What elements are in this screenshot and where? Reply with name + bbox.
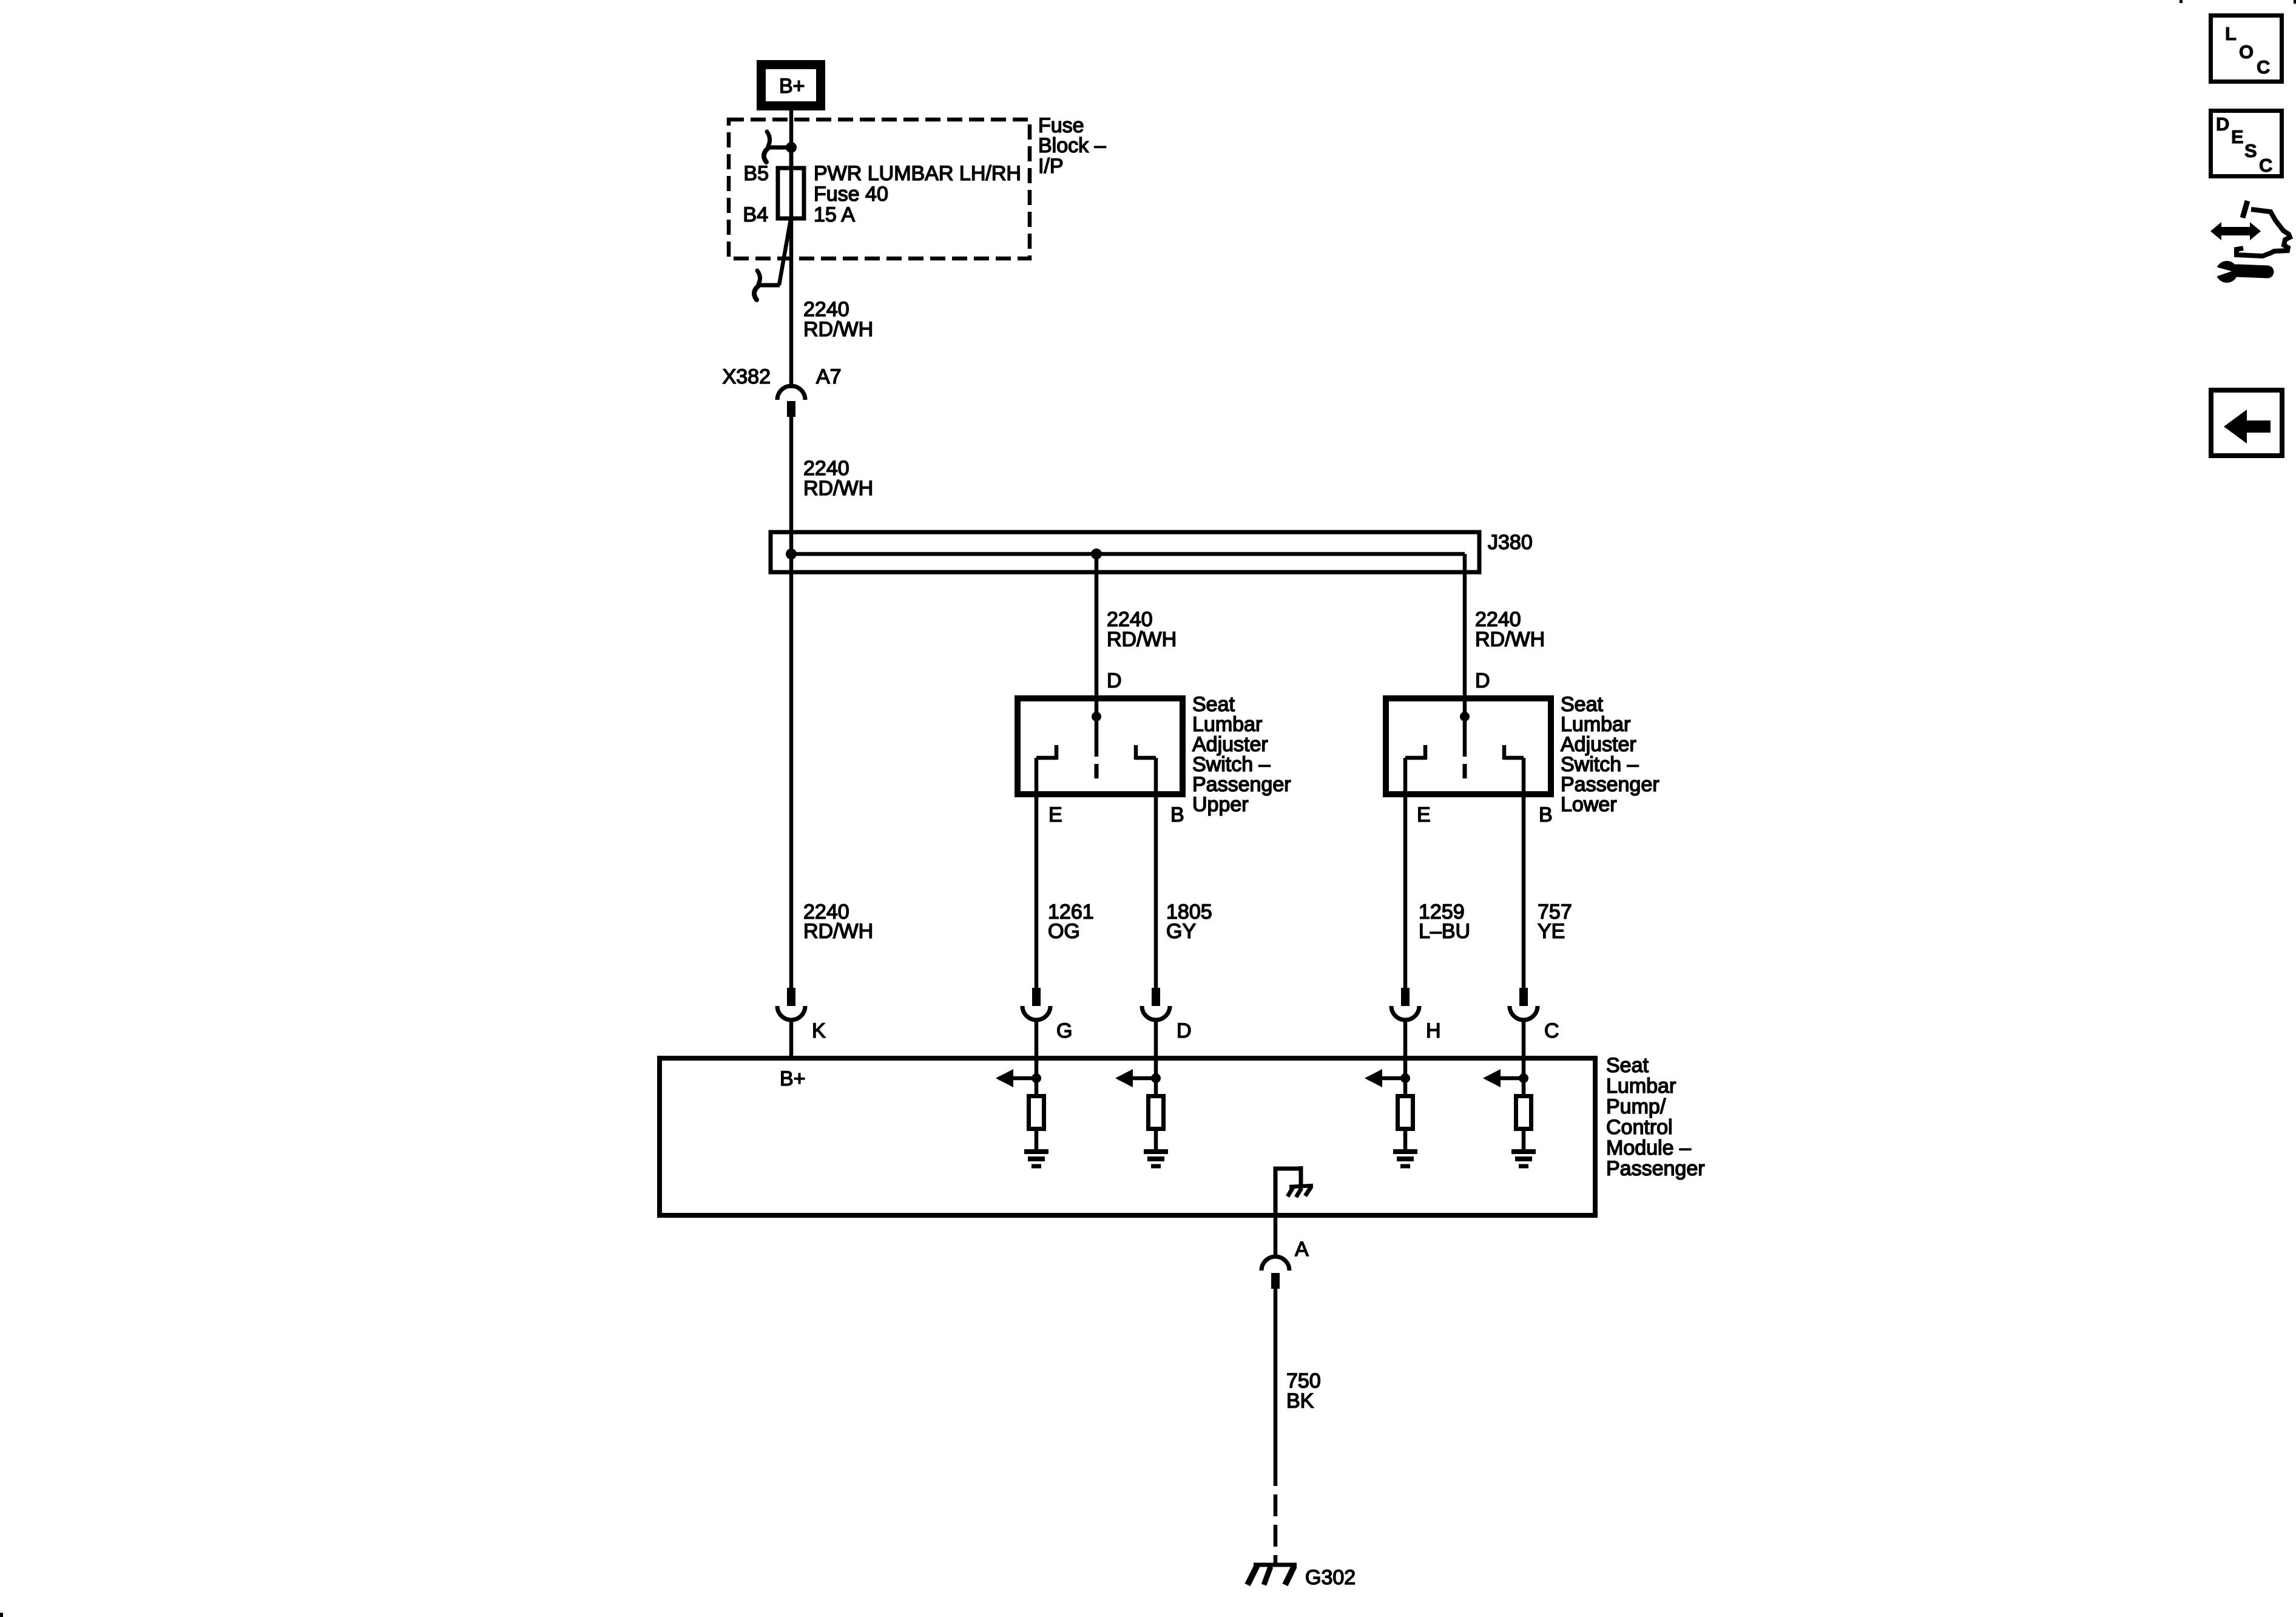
svg-text:I/P: I/P (1038, 155, 1064, 178)
wire S2-E to module pin H (1403, 758, 1408, 989)
svg-text:Pump/: Pump/ (1606, 1095, 1666, 1118)
fuse block I/P dashed box (729, 120, 1030, 258)
in-line connector X382 pin A7 (777, 386, 805, 417)
svg-text:A7: A7 (816, 365, 842, 388)
svg-text:PWR LUMBAR LH/RH: PWR LUMBAR LH/RH (814, 162, 1021, 185)
svg-text:OG: OG (1048, 920, 1080, 943)
svg-text:S: S (2244, 140, 2257, 161)
splice junction dot middle (1091, 549, 1102, 559)
svg-text:B: B (1170, 803, 1184, 826)
svg-text:O: O (2239, 41, 2254, 62)
module Seat Lumbar Pump/Control Module - Passenger (660, 1058, 1595, 1215)
wire S1-B to module pin D (1154, 758, 1158, 989)
switch S1 Seat Lumbar Adjuster Switch - Passenger Upper (1018, 698, 1183, 794)
splice pack J380 (771, 532, 1479, 572)
svg-text:G302: G302 (1305, 1566, 1356, 1589)
splice junction dot left (786, 549, 797, 559)
module channel H: arrow, resistor, ground (1365, 1069, 1417, 1166)
page artifact top right speck (2294, 0, 2296, 4)
module channel D: arrow, resistor, ground (1115, 1069, 1168, 1166)
wire J380 down to module pin K (789, 554, 794, 989)
svg-text:Lumbar: Lumbar (1606, 1075, 1676, 1098)
page artifact bottom left speck (0, 1613, 3, 1617)
LOC nav box (2211, 16, 2282, 82)
svg-text:D: D (2216, 113, 2229, 135)
fuse value label (814, 162, 1021, 226)
B5 fuse clip (764, 132, 791, 162)
switch S2 label (1561, 693, 1660, 816)
wire label 1805 GY (1166, 900, 1212, 943)
connector pin A (1261, 1215, 1289, 1289)
wire S1-E to module pin G (1035, 758, 1039, 989)
wire label 1259 L-BU (1419, 900, 1470, 943)
module channel G: arrow, resistor, ground (996, 1069, 1048, 1166)
svg-text:Upper: Upper (1192, 793, 1249, 816)
svg-text:X382: X382 (723, 365, 771, 388)
wire label 757 YE (1538, 900, 1572, 943)
svg-text:Lower: Lower (1561, 793, 1617, 816)
svg-text:J380: J380 (1488, 531, 1533, 554)
svg-text:RD/WH: RD/WH (1107, 628, 1177, 651)
dashed wire to G302 (1274, 1494, 1278, 1564)
connector pin G (1022, 988, 1050, 1078)
svg-text:RD/WH: RD/WH (1475, 628, 1545, 651)
B4 fuse clip (754, 271, 780, 300)
svg-text:C: C (2257, 56, 2270, 78)
svg-text:Seat: Seat (1606, 1054, 1649, 1077)
connector pin K (777, 988, 805, 1058)
wire fuse to X382 (789, 218, 794, 388)
svg-text:D: D (1475, 669, 1490, 692)
B4 fuse element diagonal (779, 220, 791, 285)
wire label 2240 RD/WH (pin K feed) (803, 900, 873, 943)
wire label 1261 OG (1048, 900, 1094, 943)
service icon wrench (2214, 261, 2267, 283)
fuse block label (1038, 114, 1106, 178)
module label (1606, 1054, 1705, 1180)
wire from B+ to fuse (789, 110, 794, 170)
service icon double arrow (2210, 222, 2261, 240)
wire J380 to switch 2 pin D (1463, 554, 1467, 717)
back arrow nav box (2211, 390, 2282, 456)
ground G302 (1248, 1565, 1297, 1585)
svg-text:B5: B5 (743, 162, 769, 185)
svg-text:G: G (1056, 1019, 1072, 1042)
wire label 2240 RD/WH (1475, 608, 1545, 651)
svg-text:RD/WH: RD/WH (803, 477, 873, 500)
wire S2-B to module pin C (1522, 758, 1526, 989)
switch S2 Seat Lumbar Adjuster Switch - Passenger Lower (1386, 698, 1551, 794)
svg-text:E: E (1048, 803, 1062, 826)
fuse F40 body (778, 168, 804, 218)
switch S1 label (1192, 693, 1291, 816)
wire J380 to switch 1 pin D (1095, 554, 1099, 717)
service icon panel outline (2237, 201, 2290, 256)
svg-text:L–BU: L–BU (1419, 920, 1470, 943)
svg-text:D: D (1107, 669, 1122, 692)
connector pin H (1391, 988, 1419, 1078)
wire label 2240 RD/WH (803, 298, 873, 341)
svg-text:Passenger: Passenger (1606, 1157, 1705, 1180)
wire X382 to J380 splice pack (789, 417, 794, 553)
svg-text:15 A: 15 A (814, 203, 855, 226)
wire through fuse (789, 147, 794, 218)
svg-text:D: D (1177, 1019, 1192, 1042)
svg-text:B+: B+ (780, 1067, 806, 1090)
svg-text:E: E (1417, 803, 1431, 826)
DESC nav box (2211, 111, 2282, 177)
connector pin D (1142, 988, 1170, 1078)
svg-text:B4: B4 (743, 203, 768, 226)
module internal chassis ground to pin A (1274, 1166, 1314, 1215)
node B5 junction dot (786, 142, 797, 153)
svg-text:C: C (2259, 155, 2272, 176)
svg-text:GY: GY (1166, 920, 1196, 943)
B+ power symbol box (761, 65, 821, 106)
svg-text:K: K (812, 1019, 826, 1042)
svg-text:RD/WH: RD/WH (803, 318, 873, 341)
wire label 2240 RD/WH (1107, 608, 1177, 651)
svg-text:H: H (1426, 1019, 1441, 1042)
svg-text:L: L (2225, 23, 2237, 44)
svg-text:Control: Control (1606, 1116, 1673, 1139)
connector pin C (1510, 988, 1538, 1078)
svg-text:B+: B+ (779, 75, 805, 98)
svg-text:RD/WH: RD/WH (803, 920, 873, 943)
wire label 2240 RD/WH (803, 457, 873, 500)
wire pin A to G302 (1274, 1289, 1278, 1486)
svg-text:Module –: Module – (1606, 1136, 1691, 1160)
svg-text:B: B (1539, 803, 1553, 826)
wire label 750 BK (1286, 1369, 1321, 1413)
page artifact top left speck (2180, 0, 2183, 3)
svg-text:A: A (1295, 1238, 1309, 1261)
svg-text:YE: YE (1538, 920, 1565, 943)
svg-text:Fuse 40: Fuse 40 (814, 183, 888, 206)
module channel C: arrow, resistor, ground (1483, 1069, 1536, 1166)
svg-text:BK: BK (1286, 1389, 1314, 1413)
svg-text:Block –: Block – (1038, 134, 1106, 157)
svg-text:C: C (1544, 1019, 1559, 1042)
svg-text:E: E (2231, 126, 2244, 147)
